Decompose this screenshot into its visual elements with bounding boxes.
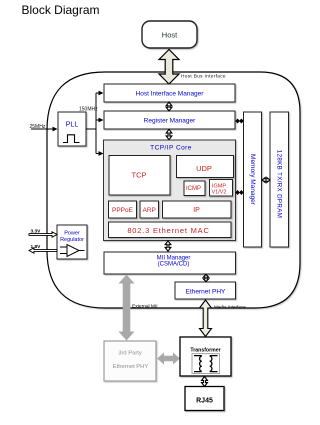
TCP box [109, 156, 170, 196]
svg-text:128KB TX/RX DPRAM: 128KB TX/RX DPRAM [276, 150, 283, 218]
Transformer box [180, 337, 231, 376]
Memory Manager box [244, 112, 262, 247]
svg-text:TCP: TCP [132, 171, 147, 180]
svg-text:(CSMA/CD): (CSMA/CD) [158, 262, 190, 268]
Host Interface Manager box [104, 84, 235, 102]
svg-text:1.8V: 1.8V [31, 244, 42, 250]
connector HIM to Register Manager [166, 102, 172, 111]
svg-text:3.3V: 3.3V [31, 228, 42, 234]
802.3 Ethernet MAC box [109, 222, 232, 238]
svg-text:Transformer: Transformer [190, 348, 220, 354]
host bus interface arrow (Host to chip) [159, 50, 179, 85]
ARP box [140, 201, 159, 218]
svg-text:25MHz: 25MHz [30, 124, 46, 130]
op-amp symbol inside Power Regulator [67, 245, 79, 257]
25MHz input wire [31, 128, 54, 130]
Host box [142, 21, 197, 48]
svg-text:Regulator: Regulator [60, 237, 84, 243]
3rd Party Ethernet PHY box [104, 341, 156, 381]
bowtie connector Register Manager to Memory Manager [235, 119, 243, 124]
Power Regulator box [57, 225, 87, 259]
1.8V output arrow [29, 248, 57, 253]
PPPoE box [109, 201, 137, 218]
RJ45 box [185, 387, 224, 411]
svg-text:ICMP: ICMP [186, 186, 201, 192]
transformer coils symbol [194, 356, 202, 372]
External MII arrow (MII Manager to 3rd party PHY) [119, 275, 135, 341]
svg-text:Media Interface: Media Interface [214, 305, 246, 310]
TCP/IP Core container box [104, 140, 236, 241]
Ethernet PHY box [175, 282, 236, 299]
connector MII Manager to Ethernet PHY [203, 274, 208, 281]
svg-text:150MHz: 150MHz [79, 107, 98, 113]
svg-text:Register Manager: Register Manager [144, 118, 196, 125]
PLL clock waveform symbol [63, 135, 80, 143]
svg-text:3rd Party: 3rd Party [118, 351, 142, 357]
svg-text:RJ45: RJ45 [196, 398, 213, 405]
UDP box [177, 156, 234, 178]
connector Register Manager to TCP/IP core [166, 129, 172, 139]
svg-text:TCP/IP Core: TCP/IP Core [150, 145, 192, 152]
svg-text:PLL: PLL [66, 122, 79, 129]
IP box [163, 201, 232, 218]
connector TCP/IP core to MII Manager [165, 241, 171, 251]
connector Transformer to RJ45 [202, 377, 208, 387]
svg-text:UDP: UDP [196, 164, 212, 173]
PLL output wire with branches [86, 93, 100, 154]
svg-text:Host Bus Interface: Host Bus Interface [181, 74, 226, 80]
svg-text:Block Diagram: Block Diagram [22, 3, 100, 17]
chip outline (main IC body) [47, 72, 300, 308]
Media Interface arrow (Ethernet PHY to Transformer) [200, 300, 212, 337]
svg-text:Ethernet PHY: Ethernet PHY [113, 364, 149, 370]
svg-text:Host Interface Manager: Host Interface Manager [136, 91, 205, 98]
connector Memory Manager to DPRAM [262, 178, 270, 183]
3.3V input arrow [29, 232, 57, 237]
bowtie connector TCP/IP core to Memory Manager [235, 190, 243, 195]
svg-text:Host: Host [162, 31, 178, 40]
svg-text:802.3 Ethernet MAC: 802.3 Ethernet MAC [127, 226, 209, 235]
svg-text:ARP: ARP [143, 207, 156, 214]
svg-text:Memory Manager: Memory Manager [249, 154, 256, 206]
ICMP box [184, 181, 205, 196]
PLL box [58, 112, 86, 146]
svg-text:Ethernet PHY: Ethernet PHY [186, 289, 226, 296]
svg-text:External MII: External MII [132, 304, 158, 310]
svg-text:Power: Power [64, 231, 80, 237]
arrow 3rd party PHY to Transformer [157, 353, 180, 365]
svg-text:IP: IP [193, 207, 200, 214]
MII Manager box [104, 252, 236, 274]
Register Manager box [104, 111, 235, 129]
128KB TX/RX DPRAM box [270, 112, 289, 247]
svg-text:PPPoE: PPPoE [112, 207, 134, 214]
IGMP V1/V2 box [210, 180, 233, 197]
svg-text:V1/V2: V1/V2 [212, 190, 227, 196]
